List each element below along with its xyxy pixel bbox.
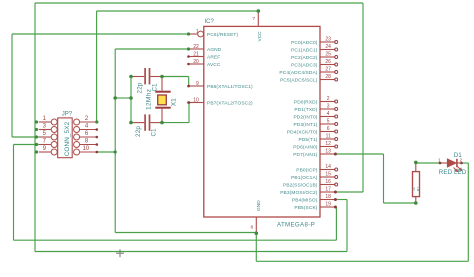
pin 3 open end [335,108,338,111]
JP stub right pin 10 [80,151,97,153]
svg-text:JP?: JP? [62,112,73,118]
svg-text:PB4(MISO): PB4(MISO) [292,197,318,203]
svg-text:GND: GND [256,200,262,211]
IC? ATMEGA8-P body [204,26,320,217]
svg-text:PD0(RXD): PD0(RXD) [294,99,318,105]
wire LED cathode to right edge [462,162,469,164]
wire link to JP pin 5 [12,136,39,138]
pin 3 PD1(TXD) [320,108,335,110]
capacitor C2 plates [145,114,149,130]
JP pad left pin 9 [51,149,57,155]
crystal X1 body [158,95,167,105]
pin 14 open end [335,168,338,171]
pin 18 PB4(MISO) [320,199,335,201]
svg-text:PC6(/RESET): PC6(/RESET) [207,32,238,38]
pin 13 PD7(AIN1) [320,153,335,155]
svg-text:5: 5 [327,119,330,125]
svg-text:3: 3 [43,124,47,130]
wire VCC top horizontal [97,10,259,12]
origin cross [116,249,124,257]
JP pad right pin 6 [74,134,80,140]
svg-text:11: 11 [326,134,331,140]
pin 24 open end [335,48,338,51]
wire RESET vertical x12 [11,34,13,137]
pin 19 PB5(SCK) [320,206,335,208]
svg-text:R1: R1 [417,187,421,191]
junction VCC [257,9,261,13]
junction GND pin [254,231,258,235]
pin 4 PD2(INT0) [320,116,335,118]
pin 15 PB1(OC1A) [320,176,335,178]
JP pad left pin 7 [51,142,57,148]
junction gnd tie [113,96,117,100]
svg-text:PD4(XCK/T0): PD4(XCK/T0) [287,129,318,135]
pin 13 junction [334,153,337,156]
svg-text:3: 3 [327,104,330,110]
wire resistor top to LED [416,162,440,164]
wire GND horizontal y232.5 [115,232,256,234]
resistor R1 top lead [415,162,417,171]
pin 28 PC5(ADC5/SCL) [320,79,335,81]
JP stub left pin 5 [39,136,51,138]
junction resistor bottom [414,201,418,205]
wire GND bottom horizontal [256,260,468,262]
svg-text:5: 5 [43,131,47,137]
svg-text:1: 1 [196,29,199,35]
crystal X1 top plate [155,91,170,93]
connector JP? body [58,118,72,158]
pin 5 open end [335,123,338,126]
pin 21 end dot [187,55,190,58]
svg-text:2: 2 [327,96,330,102]
pin 9 PB6(XTAL1/TOSC1) [189,85,204,87]
svg-text:VCC: VCC [257,31,263,42]
wire XTAL1 horizontal [162,76,189,78]
svg-text:4: 4 [327,111,330,117]
pin 10 PB7(XTAL2/TOSC2) [189,102,204,104]
wire MOSI right vertical [362,3,364,192]
svg-text:28: 28 [325,74,331,80]
svg-text:27: 27 [325,67,331,73]
svg-text:22: 22 [193,44,199,50]
svg-text:22p: 22p [137,82,144,93]
junction left pin 7 [35,143,38,146]
svg-text:4: 4 [85,124,89,130]
svg-text:PB2(SS/OC1B): PB2(SS/OC1B) [283,182,318,188]
svg-text:22p: 22p [135,126,142,137]
svg-text:PD3(INT1): PD3(INT1) [293,122,317,128]
wire MISO link to pin 18 [335,199,347,201]
svg-text:18: 18 [325,194,331,200]
pin 22 end dot [187,48,190,51]
crystal X1 bottom lead [161,109,163,123]
svg-text:PB0(ICP): PB0(ICP) [296,167,318,173]
resistor R1 body [413,172,420,197]
capacitor C2 leads [131,122,162,124]
svg-text:PB1(OC1A): PB1(OC1A) [291,175,318,181]
wire left vertical x35 [34,3,36,252]
svg-text:PC2(ADC2): PC2(ADC2) [291,55,318,61]
JP pad left pin 1 [51,119,57,125]
svg-text:PD7(AIN1): PD7(AIN1) [293,152,318,158]
svg-text:CONN_5X2: CONN_5X2 [64,121,71,156]
pin 25 open end [335,56,338,59]
junction JP pin 10 gnd [114,150,117,153]
pin 20 end dot [187,63,190,66]
svg-text:10: 10 [82,146,89,152]
junction left pin 5 [35,135,38,138]
JP stub right pin 6 [80,136,97,138]
svg-text:PD2(INT0): PD2(INT0) [293,114,317,120]
svg-text:PB6(XTAL1/TOSC1): PB6(XTAL1/TOSC1) [207,84,253,90]
pin end right 4 [96,128,99,131]
svg-text:12: 12 [325,141,331,147]
pin 27 PC4(ADC4/SDA) [320,71,335,73]
junction left pin 1 [35,120,38,123]
JP pad right pin 4 [74,127,80,133]
junction xtal bottom [160,121,164,125]
svg-text:PC4(ADC4/SDA): PC4(ADC4/SDA) [279,70,317,76]
junction pin9 wire [187,85,190,88]
capacitor C1 plates [145,68,149,84]
pin 1 PC6(/RESET) [189,33,198,35]
junction cap tie top [129,75,133,79]
pin 11 open end [335,138,338,141]
pin 17 PB3(MOSI/OC2) [320,191,335,193]
svg-text:PB7(XTAL2/TOSC2): PB7(XTAL2/TOSC2) [207,100,253,106]
svg-text:PD5(T1): PD5(T1) [299,137,318,143]
pin end right 2 [96,121,99,124]
svg-text:12Mhz: 12Mhz [145,89,152,110]
resistor R1 bottom lead [415,197,417,203]
JP stub left pin 3 [39,129,51,131]
wire GND vertical x114.6 [114,49,116,233]
svg-text:8: 8 [251,225,254,231]
junction cap tie mid [129,96,133,100]
pin 26 PC3(ADC3) [320,64,335,66]
junction left pin 9 [35,150,38,153]
svg-text:ATMEGA8-P: ATMEGA8-P [277,222,315,229]
pin 25 PC2(ADC2) [320,56,335,58]
crystal X1 bottom plate [155,107,170,109]
junction resistor top [414,161,418,165]
pin 15 open end [335,176,338,179]
svg-text:21: 21 [193,51,199,57]
pin 11 PD5(T1) [320,138,335,140]
pin 1 end dot [187,33,190,36]
svg-text:PD1(TXD): PD1(TXD) [294,107,317,113]
pin 14 PB0(ICP) [320,169,335,171]
wire SCK bottom horizontal [14,239,337,241]
svg-text:14: 14 [325,164,331,170]
svg-text:25: 25 [325,52,331,58]
JP pad left pin 5 [51,134,57,140]
pin 6 PD4(XCK/T0) [320,131,335,133]
JP stub right pin 2 [80,121,97,123]
crystal X1 top lead [161,77,163,91]
svg-text:7: 7 [43,139,47,145]
wire SCK vertical x15 [13,145,15,241]
pin 28 open end [335,78,338,81]
pin 8 GND [255,217,257,233]
wire link to JP pin 7 [14,144,39,146]
LED D1 cathode bar [456,159,458,167]
pin 22 AGND [189,48,204,50]
junction reset wire [187,32,190,35]
wire right edge vertical [467,163,469,261]
svg-text:6: 6 [85,131,89,137]
junction agnd wire [187,47,190,50]
wire PD7 to LED net horizontal [335,153,383,155]
svg-text:20: 20 [193,59,199,65]
wire XTAL2 horizontal y122.6 [162,122,189,124]
svg-text:PD6(AIN0): PD6(AIN0) [293,144,318,150]
svg-text:PB5(SCK): PB5(SCK) [294,205,317,211]
pin 5 PD3(INT1) [320,123,335,125]
wire cap tie vertical x131 [130,77,132,123]
LED pin2 dot [460,162,463,165]
pin 17 junction [334,191,337,194]
wire cap gnd tie horizontal y99 [115,97,131,99]
pin 16 open end [335,183,338,186]
LED D1 anode stub [440,162,447,164]
pin 7 VCC [257,11,259,26]
pin 23 open end [335,41,338,44]
wire AGND horizontal y49 [115,48,188,50]
svg-text:PC1(ADC1): PC1(ADC1) [291,47,318,53]
svg-text:8: 8 [85,139,89,145]
JP stub left pin 9 [39,151,51,153]
svg-text:13: 13 [325,149,331,155]
wire RESET horizontal y34 [12,33,189,35]
JP stub left pin 1 [39,121,51,123]
JP stub left pin 7 [39,144,51,146]
svg-text:2: 2 [460,158,463,163]
svg-text:AGND: AGND [207,47,222,53]
capacitor C1 leads [131,76,162,78]
wire PD7 net to resistor bottom [384,202,416,204]
pin 20 AVCC [189,63,204,65]
LED D1 arrows [454,167,462,172]
pin end right 8 [96,143,99,146]
pin 19 junction [334,206,337,209]
svg-text:26: 26 [325,59,331,65]
pin 12 PD6(AIN0) [320,146,335,148]
svg-text:X1: X1 [171,98,178,106]
junction cap tie bottom [129,121,133,125]
svg-text:16: 16 [325,179,331,185]
pin 2 PD0(RXD) [320,101,335,103]
svg-text:AVCC: AVCC [207,62,221,68]
svg-text:2: 2 [85,116,89,122]
svg-text:15: 15 [325,172,331,178]
JP pad right pin 10 [74,149,80,155]
svg-text:IC?: IC? [205,19,215,25]
pin 26 open end [335,63,338,66]
JP stub right pin 8 [80,144,97,146]
svg-text:9: 9 [196,81,199,87]
wire PD7 net vertical [383,154,385,203]
pin 10 end dot [187,101,190,104]
junction xtal top [160,75,164,79]
svg-text:PC3(ADC3): PC3(ADC3) [291,62,318,68]
pin 2 open end [335,100,338,103]
svg-text:23: 23 [325,37,331,43]
pin end right 10 [96,151,99,154]
pin 21 AREF [189,56,204,58]
svg-text:7: 7 [253,16,256,22]
pin 23 PC0(ADC0) [320,41,335,43]
svg-text:PC0(ADC0): PC0(ADC0) [291,40,318,46]
wire GND below IC [255,233,257,261]
svg-text:10: 10 [193,97,199,103]
wire SCK vertical x336 [335,207,337,240]
junction vcc jp2 [95,120,98,123]
LED D1 cathode stub [457,162,462,164]
svg-text:9: 9 [43,146,47,152]
wire MISO bottom horizontal [35,251,347,253]
pin 18 junction [334,198,337,201]
svg-text:24: 24 [325,44,331,50]
svg-text:17: 17 [325,187,331,193]
svg-text:C1: C1 [151,83,158,92]
pin end right 6 [96,136,99,139]
JP pad right pin 2 [74,119,80,125]
pin 24 PC1(ADC1) [320,49,335,51]
svg-text:1: 1 [43,116,47,122]
pin 27 open end [335,71,338,74]
svg-text:AREF: AREF [207,54,220,60]
wire MISO vertical x347 [346,200,348,252]
JP pad right pin 8 [74,142,80,148]
pin 12 open end [335,145,338,148]
junction left pin 3 [35,128,38,131]
svg-text:C1: C1 [150,128,157,137]
pin 6 open end [335,130,338,133]
svg-text:1k: 1k [412,187,416,191]
LED pin1 dot [439,162,442,165]
LED D1 triangle [447,159,456,168]
svg-text:PB3(MOSI/OC2): PB3(MOSI/OC2) [280,190,318,196]
svg-text:PC5(ADC5/SCL): PC5(ADC5/SCL) [280,77,318,83]
svg-text:6: 6 [327,126,330,132]
pin 16 PB2(SS/OC1B) [320,184,335,186]
JP stub right pin 4 [80,129,97,131]
wire MOSI top horizontal [35,2,363,4]
JP pad left pin 3 [51,127,57,133]
wire VCC vertical x96.6 [96,11,98,122]
wire XTAL1 vertical [188,77,190,87]
wire MOSI link to pin 17 [335,191,363,193]
pin 9 end dot [187,85,190,88]
svg-text:19: 19 [325,202,331,208]
wire XTAL2 vertical x189 [188,103,190,123]
svg-text:1: 1 [438,158,441,163]
junction pin10 wire [188,101,191,104]
wire JP pin10 to GND net [97,151,115,153]
svg-text:RED LED: RED LED [439,169,467,176]
pin 4 open end [335,115,338,118]
